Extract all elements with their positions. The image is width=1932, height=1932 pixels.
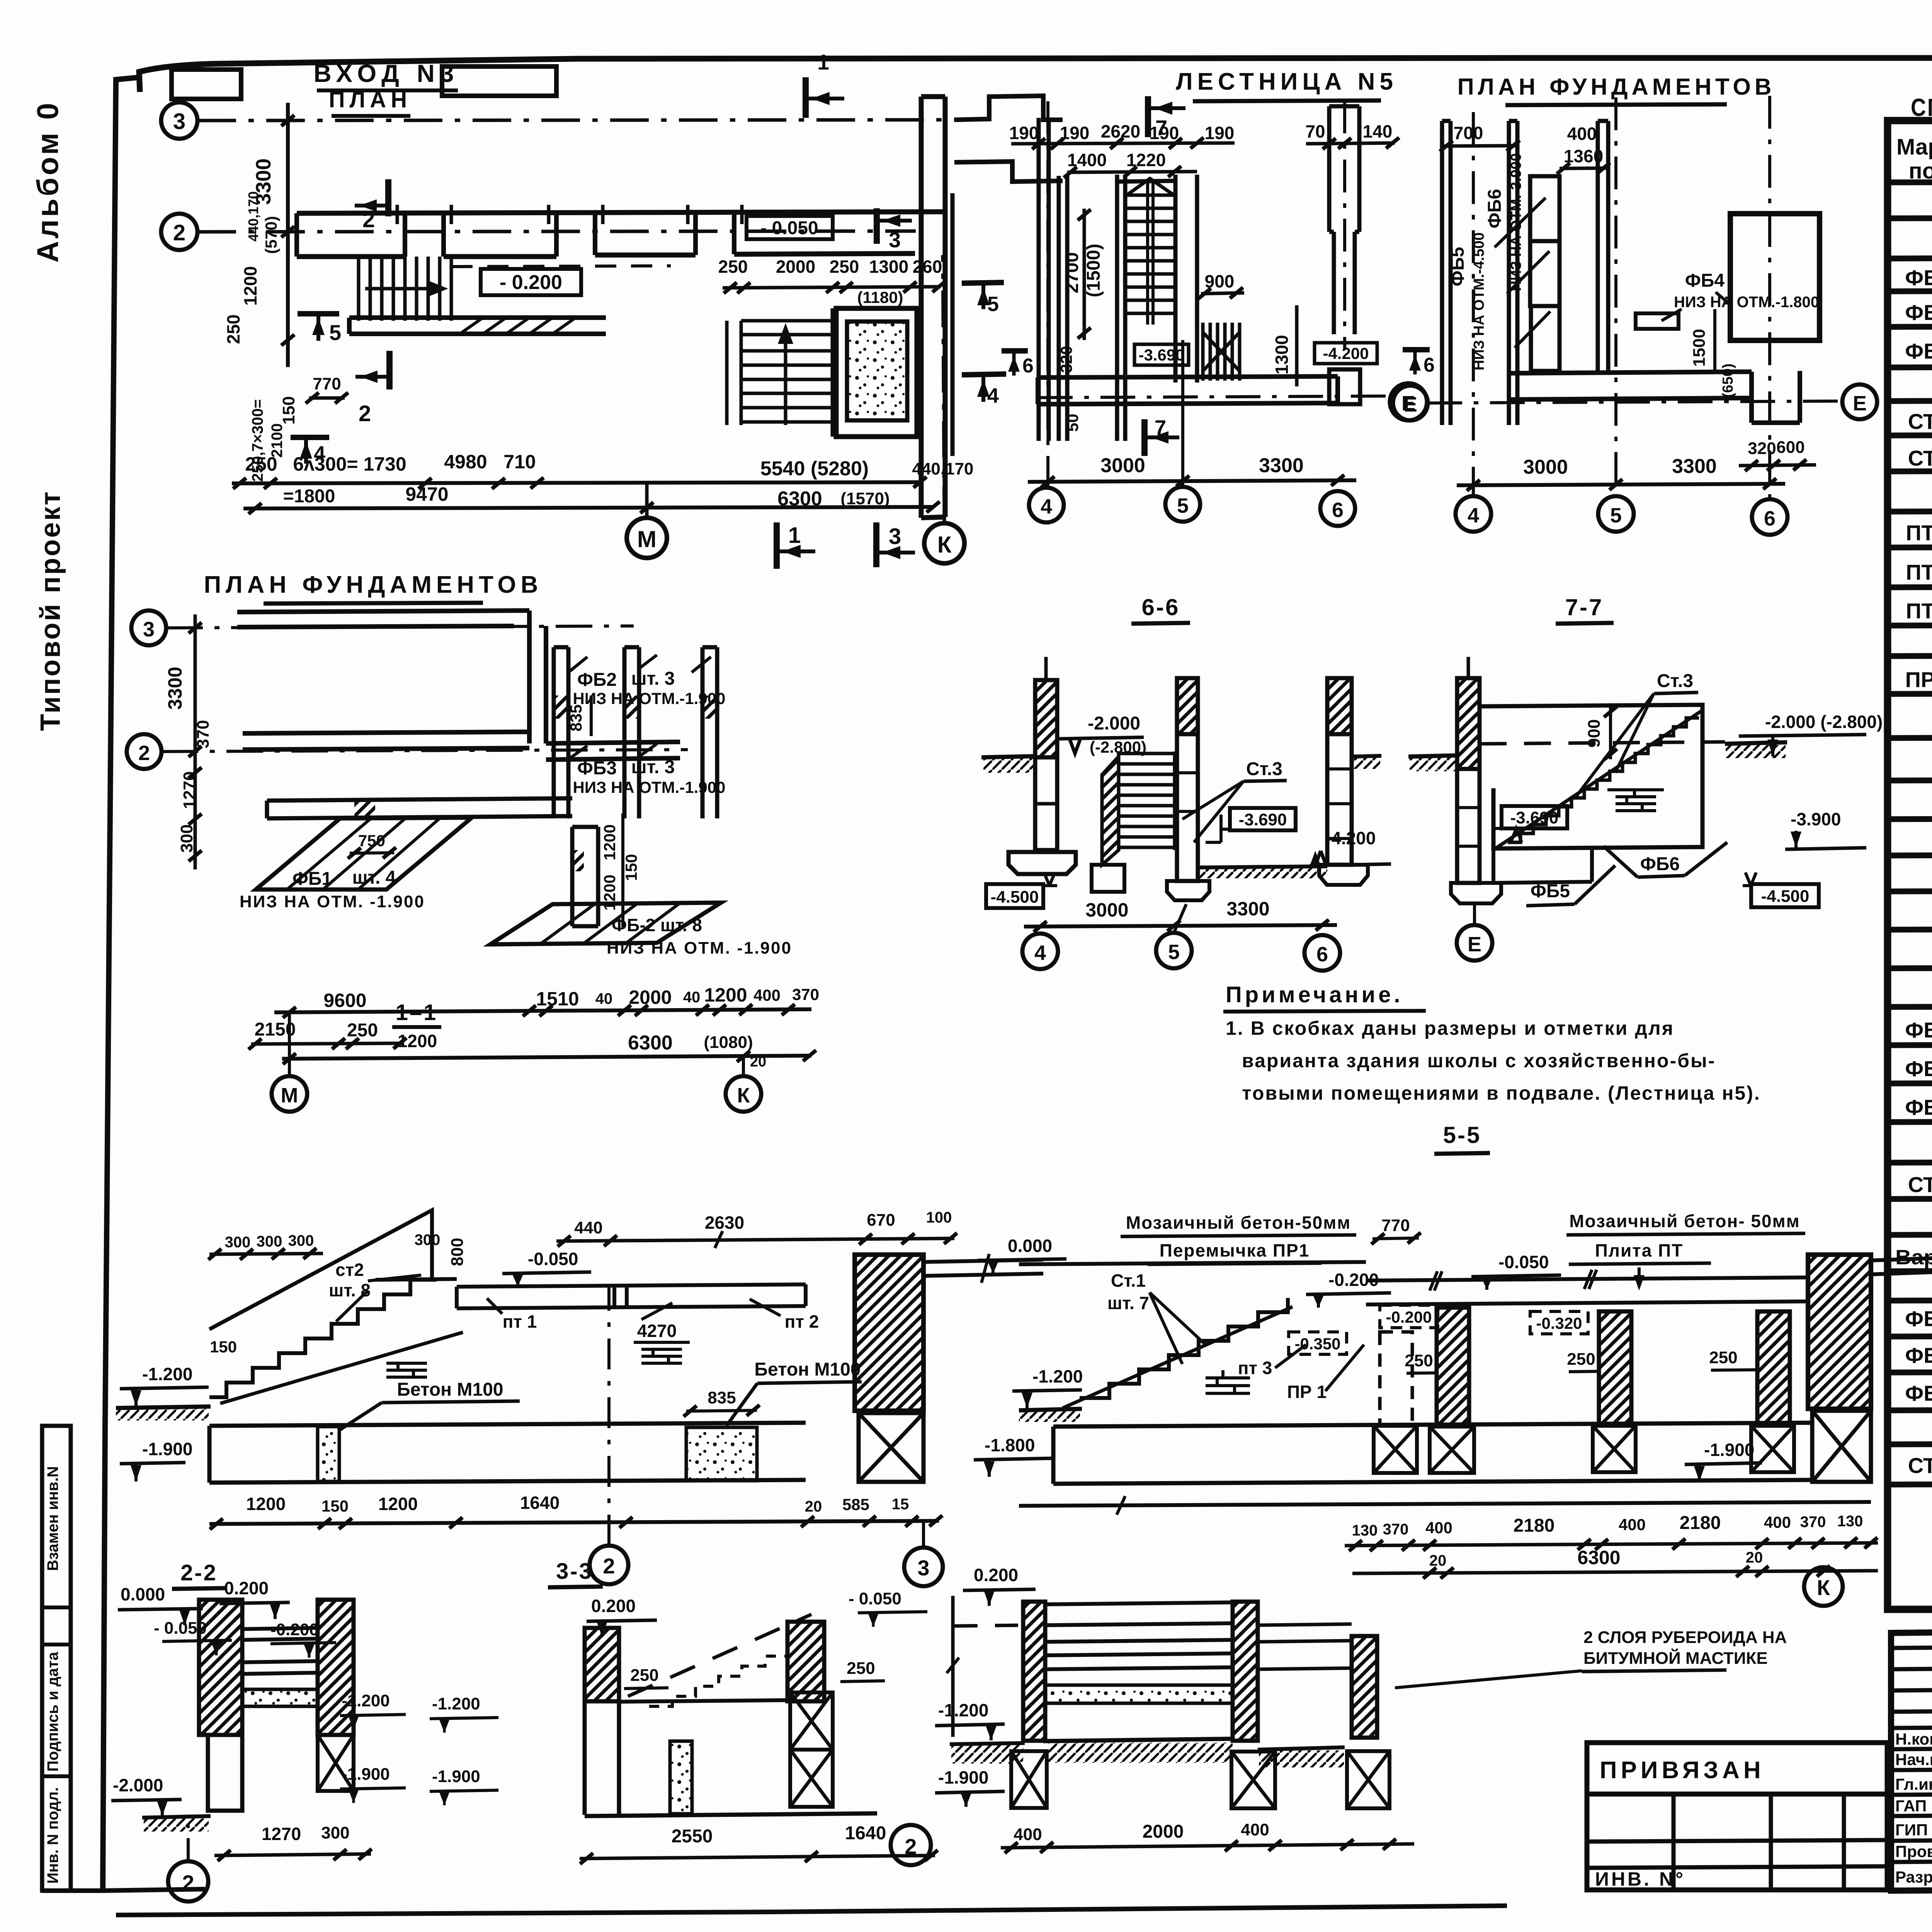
svg-text:-1.900: -1.900 — [342, 1765, 390, 1784]
wall column B dashed — [1380, 1332, 1412, 1425]
axis circle K — [726, 1076, 761, 1112]
svg-text:ФБ3: ФБ3 — [577, 758, 617, 779]
svg-text:-3.900: -3.900 — [1791, 809, 1841, 829]
svg-text:300: 300 — [177, 824, 196, 852]
lower flight steps — [1203, 323, 1240, 381]
svg-text:3: 3 — [889, 524, 901, 549]
svg-text:15: 15 — [892, 1496, 909, 1513]
svg-text:ФБ4: ФБ4 — [1905, 1306, 1932, 1331]
svg-text:ПТ1: ПТ1 — [1906, 520, 1932, 545]
svg-text:20: 20 — [805, 1498, 822, 1515]
second stair flight (treads) — [727, 308, 832, 437]
bottom dim row 1 — [323, 984, 819, 1011]
svg-text:400: 400 — [753, 986, 781, 1004]
svg-text:1: 1 — [788, 523, 801, 548]
left wall hatched — [199, 1600, 242, 1735]
svg-text:600: 600 — [1776, 438, 1804, 457]
svg-text:2700: 2700 — [1062, 252, 1082, 294]
svg-text:2100: 2100 — [269, 423, 286, 458]
section mark 3 (bottom) — [873, 522, 879, 567]
svg-text:1: 1 — [817, 50, 829, 74]
wall column D hatched — [1757, 1311, 1790, 1425]
stair flight (edge view) — [1119, 752, 1175, 850]
svg-text:ПЛАН ФУНДАМЕНТОВ: ПЛАН ФУНДАМЕНТОВ — [204, 571, 543, 598]
svg-text:150: 150 — [279, 396, 298, 424]
svg-text:ПТ2: ПТ2 — [1906, 560, 1932, 584]
svg-text:4980: 4980 — [444, 451, 487, 473]
svg-text:ФБ6: ФБ6 — [1485, 189, 1505, 228]
svg-text:ФБ2: ФБ2 — [1905, 300, 1932, 325]
axis circle 2 — [127, 734, 162, 769]
floor line right of wall — [1871, 1258, 1932, 1274]
svg-text:250: 250 — [830, 257, 859, 277]
svg-text:6: 6 — [1764, 507, 1776, 530]
svg-text:Типовой проект: Типовой проект — [35, 490, 66, 731]
svg-text:ИНВ. N°: ИНВ. N° — [1595, 1868, 1685, 1890]
svg-text:-1.200: -1.200 — [938, 1700, 988, 1720]
left wall hatched — [1023, 1602, 1045, 1741]
svg-text:НИЗ НА ОТМ.-1.900: НИЗ НА ОТМ.-1.900 — [573, 778, 726, 796]
axis circle 6 — [1752, 499, 1787, 535]
svg-text:1640: 1640 — [845, 1823, 886, 1844]
stair underside — [220, 1332, 463, 1403]
dashed level box -0.350 — [1289, 1332, 1347, 1354]
axis circle 2 — [168, 1861, 208, 1901]
svg-text:3000: 3000 — [1523, 456, 1568, 478]
porch landing slab — [349, 318, 606, 334]
section mark 6 right — [1403, 347, 1430, 352]
level -4.500 — [986, 884, 1043, 908]
svg-text:320: 320 — [1057, 346, 1075, 373]
speckled band — [1045, 1685, 1233, 1703]
left wall hatched — [585, 1628, 619, 1701]
svg-text:-1.800: -1.800 — [985, 1435, 1035, 1455]
wall along axis 2 — [243, 732, 680, 760]
svg-text:6: 6 — [1423, 354, 1435, 376]
vertical strip pair right — [572, 827, 598, 926]
svg-text:150: 150 — [622, 854, 640, 881]
svg-text:3300: 3300 — [1259, 454, 1304, 477]
ground left — [1019, 1409, 1082, 1410]
svg-text:Перемычка ПР1: Перемычка ПР1 — [1160, 1240, 1310, 1260]
ground right — [1258, 1747, 1345, 1750]
svg-text:пт 3: пт 3 — [1238, 1358, 1272, 1378]
svg-text:СТ3: СТ3 — [1908, 1453, 1932, 1478]
svg-text:1200: 1200 — [704, 984, 747, 1006]
section mark 5 — [298, 311, 339, 316]
svg-text:400: 400 — [1014, 1825, 1042, 1844]
left wall column — [1035, 680, 1057, 757]
middle stacked blocks — [1530, 176, 1560, 241]
section mark 3 (mid) — [874, 208, 880, 244]
svg-text:700: 700 — [1454, 123, 1483, 143]
wall along axis 3 — [237, 611, 529, 627]
section mark 5 (right) — [962, 282, 1004, 283]
right wall hatched — [318, 1600, 354, 1735]
svg-text:- 0.050: - 0.050 — [849, 1589, 901, 1608]
svg-text:ФБ1: ФБ1 — [1905, 265, 1932, 290]
brick symbol 2 — [634, 1342, 690, 1363]
level -3.690 — [1502, 806, 1567, 828]
svg-text:20: 20 — [1746, 1549, 1763, 1566]
svg-text:СТ3: СТ3 — [1908, 1172, 1932, 1197]
svg-text:1200: 1200 — [240, 266, 260, 306]
svg-text:шт. 3: шт. 3 — [631, 668, 675, 689]
center wall column — [1177, 678, 1198, 734]
svg-text:0.200: 0.200 — [974, 1565, 1018, 1585]
svg-text:Мозаичный бетон-50мм: Мозаичный бетон-50мм — [1126, 1213, 1351, 1233]
svg-text:40: 40 — [595, 990, 613, 1007]
dashed level box -0.200 — [1380, 1305, 1438, 1328]
left wall strips — [1442, 121, 1517, 425]
svg-text:2: 2 — [603, 1554, 615, 1578]
svg-text:5: 5 — [1168, 940, 1180, 964]
svg-text:770: 770 — [313, 374, 341, 393]
svg-text:2: 2 — [138, 742, 150, 765]
plates right span — [1258, 1624, 1352, 1669]
stair steps — [209, 1280, 437, 1397]
concrete block right — [686, 1427, 757, 1481]
svg-text:ФБ1: ФБ1 — [293, 869, 332, 889]
ground line left — [116, 1406, 211, 1408]
svg-text:2: 2 — [173, 220, 185, 245]
left dim line — [951, 1596, 955, 1737]
svg-text:3-3: 3-3 — [556, 1559, 593, 1584]
svg-text:М: М — [637, 526, 656, 552]
svg-text:ФБ6: ФБ6 — [1905, 1381, 1932, 1405]
landing arrow cross — [1127, 179, 1174, 195]
svg-text:-1.900: -1.900 — [938, 1767, 988, 1787]
svg-text:1500: 1500 — [1690, 329, 1709, 367]
svg-text:Провер.: Провер. — [1895, 1842, 1932, 1861]
svg-text:7-7: 7-7 — [1565, 594, 1604, 620]
svg-text:ПР 1: ПР 1 — [1287, 1382, 1327, 1402]
svg-text:260: 260 — [913, 257, 942, 277]
svg-text:ПТ3: ПТ3 — [1906, 599, 1932, 623]
axis circle 5 — [1598, 496, 1634, 532]
svg-text:5: 5 — [987, 293, 999, 316]
axis circle M — [627, 518, 667, 558]
X footing block — [859, 1413, 923, 1482]
svg-text:2: 2 — [359, 401, 371, 426]
X footing under B — [1374, 1426, 1417, 1473]
section mark 2 (bottom) — [386, 351, 393, 389]
svg-text:250: 250 — [1709, 1348, 1737, 1367]
foundation strip row (FB2/FB3) — [554, 647, 717, 818]
svg-text:4: 4 — [1041, 495, 1052, 518]
svg-text:ПЛАН: ПЛАН — [329, 87, 412, 112]
svg-text:770: 770 — [1381, 1216, 1410, 1235]
svg-text:-2.000 (-2.800): -2.000 (-2.800) — [1765, 712, 1883, 732]
svg-text:6300: 6300 — [628, 1032, 673, 1054]
svg-text:9470: 9470 — [405, 483, 448, 505]
svg-text:ФБ4: ФБ4 — [1685, 270, 1725, 291]
svg-text:-0.050: -0.050 — [528, 1249, 578, 1269]
basement ceiling plate band — [1366, 1277, 1808, 1304]
svg-text:1510: 1510 — [536, 988, 579, 1010]
pit floor line — [619, 1700, 787, 1702]
svg-text:300: 300 — [321, 1823, 349, 1842]
svg-text:Альбом 0: Альбом 0 — [31, 100, 65, 262]
svg-text:130: 130 — [1837, 1513, 1863, 1530]
svg-text:250: 250 — [718, 257, 748, 277]
footing — [1451, 883, 1501, 903]
foundation slab — [209, 1423, 806, 1483]
svg-text:ФБ3: ФБ3 — [1905, 339, 1932, 363]
svg-text:К: К — [1817, 1575, 1830, 1600]
entry pad walls — [836, 308, 917, 437]
svg-text:320: 320 — [1748, 439, 1776, 458]
svg-text:Ст.3: Ст.3 — [1246, 759, 1282, 779]
svg-text:835: 835 — [707, 1388, 736, 1407]
svg-text:400: 400 — [1241, 1820, 1269, 1839]
svg-text:ПРИВЯЗАН: ПРИВЯЗАН — [1600, 1757, 1765, 1784]
stair treads upper flight — [1125, 195, 1175, 313]
svg-text:0.000: 0.000 — [121, 1584, 165, 1604]
bottom foundation lines — [1493, 849, 1592, 883]
svg-text:1–1: 1–1 — [396, 1000, 438, 1025]
signature names — [1895, 1729, 1932, 1886]
plates between walls — [242, 1628, 318, 1674]
sheet left border — [103, 77, 140, 1891]
dashed level — [954, 1625, 1023, 1626]
signature table rows — [1891, 1646, 1932, 1862]
X footing under D — [1751, 1426, 1794, 1472]
privyazan box — [1587, 1743, 1887, 1794]
svg-text:2: 2 — [182, 1871, 194, 1895]
section mark 2 (top) — [385, 179, 391, 216]
svg-text:Е: Е — [1468, 933, 1481, 956]
svg-text:1300: 1300 — [869, 257, 908, 277]
vertical dim line — [194, 614, 197, 869]
corner vertical wall — [529, 611, 546, 743]
svg-text:пт 2: пт 2 — [785, 1311, 819, 1332]
svg-text:-4.500: -4.500 — [991, 888, 1039, 906]
svg-text:товыми помещениями в подвале.: товыми помещениями в подвале. (Лестница … — [1242, 1082, 1761, 1104]
svg-text:Ст.1: Ст.1 — [1111, 1270, 1146, 1291]
axis circle 5 — [1165, 487, 1200, 522]
stair up arrow — [784, 328, 787, 425]
svg-text:710: 710 — [503, 451, 536, 473]
ground left — [1408, 755, 1457, 757]
svg-text:4: 4 — [1468, 504, 1479, 527]
svg-text:0.000: 0.000 — [1008, 1236, 1052, 1256]
svg-text:1270: 1270 — [262, 1824, 301, 1844]
axis circle K — [1804, 1567, 1843, 1606]
svg-text:-1.200: -1.200 — [142, 1364, 192, 1384]
svg-text:3000: 3000 — [1100, 454, 1145, 477]
axis E line — [1038, 396, 1388, 398]
svg-text:- 0.050: - 0.050 — [760, 218, 818, 238]
svg-text:440: 440 — [574, 1218, 602, 1237]
svg-text:(1180): (1180) — [857, 288, 903, 306]
dashed level box -0.320 — [1530, 1311, 1588, 1334]
svg-text:3: 3 — [143, 618, 155, 641]
base line — [1019, 1502, 1871, 1506]
stair rail slope — [209, 1210, 432, 1329]
ground right stub — [1352, 756, 1381, 757]
svg-text:-3.690: -3.690 — [1138, 346, 1184, 364]
left wall axis4 — [1039, 118, 1067, 441]
svg-text:шт. 8: шт. 8 — [329, 1280, 371, 1300]
table horizontal rules — [1888, 181, 1932, 1580]
wall column C hatched — [1599, 1311, 1631, 1425]
svg-text:Нач.маст: Нач.маст — [1895, 1750, 1932, 1769]
svg-text:190: 190 — [1009, 123, 1039, 143]
svg-text:-1.900: -1.900 — [432, 1767, 480, 1786]
svg-text:3: 3 — [889, 228, 901, 252]
speckled strip — [242, 1689, 318, 1706]
svg-text:7: 7 — [1155, 416, 1166, 439]
flight rails — [1148, 182, 1153, 325]
X footing under A — [1430, 1427, 1474, 1473]
svg-text:ПЛАН ФУНДАМЕНТОВ: ПЛАН ФУНДАМЕНТОВ — [1458, 74, 1776, 100]
svg-text:-0.350: -0.350 — [1294, 1335, 1340, 1353]
svg-text:-1.900: -1.900 — [1704, 1440, 1754, 1460]
svg-text:Ст.3: Ст.3 — [1657, 671, 1693, 691]
svg-text:Бетон М100: Бетон М100 — [754, 1359, 861, 1380]
svg-text:2550: 2550 — [672, 1826, 713, 1847]
svg-text:ФБ2: ФБ2 — [577, 670, 617, 690]
svg-text:250: 250 — [630, 1666, 658, 1685]
right wall X block — [318, 1735, 354, 1791]
svg-text:пт 1: пт 1 — [503, 1311, 537, 1332]
svg-text:5: 5 — [329, 320, 341, 345]
footing right — [1319, 865, 1368, 885]
svg-text:шт. 4: шт. 4 — [352, 867, 396, 888]
svg-text:-1.200: -1.200 — [432, 1694, 480, 1713]
svg-text:1. В скобках даны размеры и от: 1. В скобках даны размеры и отметки для — [1226, 1017, 1674, 1039]
svg-text:-4.500: -4.500 — [1761, 887, 1810, 906]
axis circle K — [924, 523, 964, 563]
svg-text:670: 670 — [867, 1211, 895, 1230]
left wall lower part — [208, 1735, 242, 1811]
axis circle E — [1457, 925, 1492, 961]
ground hatch center — [1048, 1743, 1233, 1763]
section mark 1 (top) — [803, 77, 809, 118]
svg-text:НИЗ НА ОТМ. -1.900: НИЗ НА ОТМ. -1.900 — [240, 892, 425, 911]
axis circle 2 — [590, 1546, 628, 1584]
axis line 3 — [166, 626, 634, 628]
stair slope underside — [1063, 1307, 1293, 1408]
axis circle 2 — [891, 1825, 931, 1865]
svg-text:-0.320: -0.320 — [1536, 1314, 1582, 1332]
inner divider with dots — [318, 1427, 339, 1481]
svg-text:370: 370 — [792, 985, 819, 1003]
svg-text:300: 300 — [288, 1232, 314, 1249]
svg-text:Плита ПТ: Плита ПТ — [1595, 1240, 1684, 1260]
axis circle 4 — [1456, 496, 1491, 532]
wall column A hatched — [1437, 1308, 1469, 1425]
axis circle 3 — [904, 1548, 943, 1586]
svg-text:190: 190 — [1150, 123, 1179, 143]
title block outer box — [1891, 1625, 1932, 1891]
stamp strip — [42, 1426, 71, 1891]
parapet rect A — [172, 70, 241, 99]
sheet top border — [139, 58, 1932, 92]
axis circle 6 — [1304, 935, 1340, 971]
plates stack — [1045, 1602, 1233, 1669]
svg-text:300: 300 — [415, 1231, 440, 1248]
section mark 7 (top) — [1145, 96, 1151, 137]
svg-text:ЛЕСТНИЦА N5: ЛЕСТНИЦА N5 — [1176, 68, 1398, 95]
svg-text:250: 250 — [347, 1020, 378, 1041]
X block left — [1011, 1751, 1047, 1808]
brick symbol — [1206, 1370, 1250, 1393]
axis circle 4 — [1029, 488, 1064, 522]
svg-text:-1.900: -1.900 — [142, 1439, 192, 1459]
svg-text:=1800: =1800 — [283, 486, 335, 507]
svg-text:1270: 1270 — [180, 771, 199, 809]
svg-text:шт. 3: шт. 3 — [631, 757, 675, 777]
svg-text:2630: 2630 — [705, 1213, 744, 1233]
svg-text:К: К — [937, 532, 952, 558]
svg-text:Подпись и дата: Подпись и дата — [44, 1651, 61, 1772]
svg-text:0.200: 0.200 — [591, 1596, 636, 1616]
axis circle 3 — [161, 102, 197, 139]
small block — [1636, 313, 1679, 329]
svg-text:3000: 3000 — [1085, 899, 1128, 921]
svg-text:370: 370 — [1800, 1514, 1826, 1531]
axis E line — [1427, 401, 1842, 403]
svg-text:250: 250 — [1405, 1351, 1433, 1370]
vertical dim 3300 — [286, 103, 290, 367]
svg-text:6: 6 — [1022, 355, 1034, 377]
svg-text:70: 70 — [1305, 121, 1325, 141]
svg-text:ФБ6: ФБ6 — [1640, 854, 1680, 874]
left wall lower — [585, 1701, 619, 1815]
bottom dims — [246, 1493, 909, 1515]
foundation slab — [1053, 1423, 1812, 1484]
svg-text:ФБ5: ФБ5 — [1905, 1056, 1932, 1081]
svg-text:Гл.инж.М: Гл.инж.М — [1895, 1775, 1932, 1793]
svg-text:5540 (5280): 5540 (5280) — [760, 457, 869, 480]
svg-text:Е: Е — [1853, 392, 1867, 415]
wall along axis E — [1038, 376, 1338, 404]
axis line 2 — [197, 231, 916, 232]
svg-text:-3.690: -3.690 — [1510, 808, 1559, 827]
axis 4 line — [1046, 101, 1049, 488]
stair core left wall — [1117, 175, 1125, 441]
bottom frame line to title block — [42, 1889, 205, 1891]
leaders to blocks — [1495, 198, 1550, 348]
iso plate FB1 — [256, 818, 472, 889]
right wall hatched — [1233, 1602, 1258, 1741]
axis circle M — [272, 1076, 307, 1112]
dashed stair — [628, 1614, 811, 1696]
svg-text:190: 190 — [1205, 123, 1235, 143]
svg-text:Взамен инв.N: Взамен инв.N — [44, 1466, 61, 1571]
level label -0.200 — [481, 269, 581, 295]
svg-text:ПР1: ПР1 — [1905, 667, 1932, 692]
svg-text:-3.690: -3.690 — [1239, 810, 1287, 829]
svg-text:-0.050: -0.050 — [1498, 1252, 1549, 1272]
stair steps — [1080, 1298, 1288, 1398]
axis circle 6 — [1320, 491, 1355, 526]
svg-text:ст2: ст2 — [335, 1260, 364, 1280]
ground 2-2 — [142, 1816, 211, 1818]
svg-text:3: 3 — [173, 109, 185, 134]
section mark 7 bottom — [1141, 419, 1148, 456]
svg-text:ФБ5: ФБ5 — [1447, 247, 1468, 286]
svg-text:(650): (650) — [1720, 364, 1736, 398]
svg-text:-2.000: -2.000 — [1088, 713, 1140, 734]
wall on axis 6 upper — [1329, 106, 1359, 232]
svg-text:Н.контр.: Н.контр. — [1895, 1730, 1932, 1748]
parapet rect B — [442, 66, 556, 96]
svg-text:4270: 4270 — [637, 1321, 677, 1341]
svg-text:2-2: 2-2 — [180, 1560, 218, 1585]
